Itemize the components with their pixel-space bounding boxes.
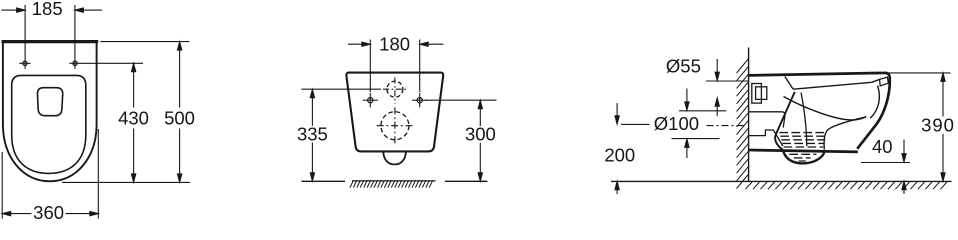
bowl outer-left wall xyxy=(775,92,795,150)
ground line over hatching (front view) xyxy=(352,180,436,182)
D100 centerlines xyxy=(377,125,413,127)
extension line holes (430) xyxy=(81,62,143,64)
inlet fitting pipe xyxy=(756,87,767,100)
trap lower step xyxy=(749,130,783,146)
dim 430 xyxy=(133,63,135,107)
outlet bump xyxy=(383,151,406,164)
inlet fitting bracket xyxy=(752,84,762,104)
mounting hole right xyxy=(73,61,77,65)
dim D55 down arrow xyxy=(716,59,718,79)
svg-text:335: 335 xyxy=(297,123,328,144)
svg-text:Ø100: Ø100 xyxy=(654,113,699,134)
ground hatching (side view) xyxy=(745,182,947,189)
svg-text:180: 180 xyxy=(379,34,410,55)
svg-text:360: 360 xyxy=(33,202,64,223)
svg-text:200: 200 xyxy=(604,145,635,166)
dim 500 xyxy=(179,42,181,108)
svg-text:Ø55: Ø55 xyxy=(666,55,701,76)
wall-side thick top edge xyxy=(2,40,99,43)
seat outline xyxy=(12,75,86,173)
seat hinge panel xyxy=(880,77,889,86)
svg-text:300: 300 xyxy=(465,124,496,145)
dim 300 xyxy=(479,100,481,126)
dim 360 xyxy=(2,213,31,215)
dim 390 xyxy=(942,73,944,117)
svg-text:390: 390 xyxy=(921,115,955,136)
svg-text:430: 430 xyxy=(118,107,149,128)
toilet side profile: top edge + front face (thick) xyxy=(749,73,890,149)
bowl inner wall down to water xyxy=(824,117,866,150)
wall hatching xyxy=(737,59,749,189)
mounting hole left (front) xyxy=(368,98,373,103)
dim 185 extension lines xyxy=(24,5,26,69)
dim 185 arrows xyxy=(2,9,25,11)
dim 180 arrows xyxy=(348,43,370,45)
seat edge left xyxy=(785,77,793,90)
D55 centerlines xyxy=(383,88,408,90)
dim 40 down arrow xyxy=(903,140,905,161)
svg-text:40: 40 xyxy=(872,136,893,157)
extension line holes (300) xyxy=(426,99,497,101)
wall line xyxy=(748,48,750,182)
extension line top (500) xyxy=(101,41,190,43)
bowl cup (thick) xyxy=(783,150,824,164)
dim 180 extension lines xyxy=(369,40,371,93)
toilet side bottom edge (thick) xyxy=(749,150,858,152)
dim 390 extension line xyxy=(889,72,951,74)
dim D55 top line xyxy=(706,80,748,82)
dim 40 top line xyxy=(861,162,910,164)
dim 200 up arrow xyxy=(615,181,619,190)
toilet body outline (top view) xyxy=(3,42,97,182)
dim 200 down arrow xyxy=(616,103,618,122)
water surface dashes xyxy=(779,133,825,161)
bowl inner back sweep xyxy=(784,97,867,121)
dim D100 top line xyxy=(679,110,726,112)
extension line inlet center (335) xyxy=(302,88,382,90)
ground hatching (front view) xyxy=(350,180,433,187)
bowl inner front wall xyxy=(870,86,879,119)
trap upper step xyxy=(749,112,785,128)
mounting hole right (front) xyxy=(417,98,422,103)
drain circle D100 xyxy=(381,112,409,140)
ground line (front view) xyxy=(302,180,346,182)
dim 335 xyxy=(311,89,313,126)
flush opening xyxy=(37,88,62,116)
inlet circle D55 xyxy=(387,81,403,97)
flush stream line xyxy=(801,93,807,147)
dim 200 top line xyxy=(621,123,650,125)
mounting hole left xyxy=(23,61,27,65)
extension line bottom xyxy=(62,181,190,183)
ground line (side view) xyxy=(611,180,952,182)
dim 40 up arrow xyxy=(902,181,906,190)
toilet front outline xyxy=(346,73,443,152)
dim D100 bottom line xyxy=(672,138,720,140)
svg-text:185: 185 xyxy=(32,0,63,19)
dim 360 extension lines xyxy=(1,152,3,219)
seat opening rear line xyxy=(793,82,872,89)
D100 centerline dashes xyxy=(707,125,747,127)
dim D55 up arrow xyxy=(715,98,719,107)
seat front link xyxy=(872,79,880,82)
dim D100 up arrow xyxy=(685,139,689,148)
svg-text:500: 500 xyxy=(164,107,195,128)
dim D100 down arrow xyxy=(686,89,688,109)
